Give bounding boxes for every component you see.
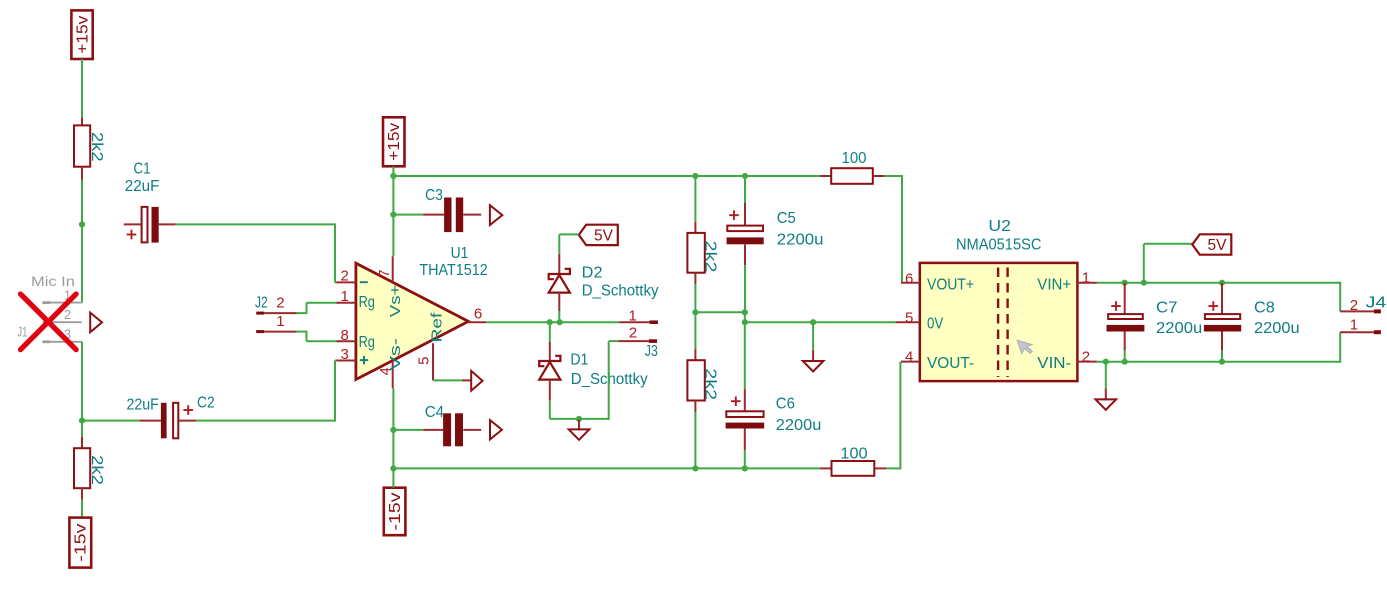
svg-text:+15v: +15v xyxy=(386,123,403,161)
global label 5V (at D2) xyxy=(579,225,618,245)
connector J4 pin 1 xyxy=(1340,317,1381,363)
mouse cursor xyxy=(1017,340,1032,354)
svg-text:5V: 5V xyxy=(594,227,614,244)
DC-DC converter U2 NMA0515SC body xyxy=(920,218,1078,381)
svg-text:Rg: Rg xyxy=(359,334,375,351)
wire to 5V label xyxy=(1144,244,1193,283)
resistor 2k2 (upper left) xyxy=(74,117,105,180)
resistor 2k2 (upper divider) xyxy=(687,176,718,312)
node junction top rail xyxy=(390,173,396,179)
node junction C3 tap xyxy=(390,212,396,218)
U2 pin 6 VOUT+ xyxy=(901,270,974,293)
wire C1 to U1 pin 2 xyxy=(176,223,337,282)
connector J1 Mic In (DNP, greyed) xyxy=(17,274,82,343)
node junction midpoint left xyxy=(692,309,698,315)
svg-text:0V: 0V xyxy=(927,316,944,333)
node junction 0V at C6 xyxy=(742,319,748,325)
U1 pin 4 Vs- xyxy=(378,338,404,389)
capacitor C7 2200u (polarised) xyxy=(1107,283,1203,362)
wire VIN+ net xyxy=(1097,282,1340,284)
svg-text:2k2: 2k2 xyxy=(701,368,718,400)
wire D1 anode to ground / J3 pin 2 drop xyxy=(550,341,609,420)
svg-text:Rg: Rg xyxy=(359,294,375,311)
U1 pin 3 non-inverting input xyxy=(337,346,369,364)
svg-text:J4: J4 xyxy=(1366,295,1387,312)
svg-text:2: 2 xyxy=(1082,349,1090,366)
connector J2 pin 2 xyxy=(255,294,297,314)
wire R to -15v flag xyxy=(81,500,83,518)
svg-text:2200u: 2200u xyxy=(1254,320,1300,337)
U2 pin 4 VOUT- xyxy=(901,349,974,372)
svg-text:1: 1 xyxy=(341,288,349,305)
svg-text:3: 3 xyxy=(341,346,349,363)
svg-text:2: 2 xyxy=(276,294,284,311)
wire 0V net to U2 pin 5 xyxy=(745,312,896,322)
svg-text:6: 6 xyxy=(474,306,482,323)
svg-text:100: 100 xyxy=(842,150,867,167)
svg-text:Vs+: Vs+ xyxy=(388,285,404,318)
svg-text:22uF: 22uF xyxy=(125,178,160,195)
power flag +15v (top left) xyxy=(71,10,92,59)
node junction D2 tap xyxy=(557,319,563,325)
svg-text:C3: C3 xyxy=(425,187,443,204)
global label 5V (at U2) xyxy=(1192,234,1231,254)
svg-text:J3: J3 xyxy=(645,343,658,360)
svg-text:5V: 5V xyxy=(1208,237,1228,254)
node junction VIN- at C7 xyxy=(1122,359,1128,365)
U1 pin 5 Ref xyxy=(416,311,445,380)
wire R to J1 pin1 / C1 tap xyxy=(81,180,83,303)
unconnected flag at C4 xyxy=(490,420,502,439)
U1 pin 2 inverting input xyxy=(337,268,368,285)
U2 pin 2 VIN- xyxy=(1037,349,1097,372)
svg-text:8: 8 xyxy=(341,327,349,344)
U1 pin 6 output xyxy=(468,306,486,323)
U2 pin 5 0V xyxy=(896,310,944,333)
resistor 100 (top) xyxy=(820,150,885,184)
svg-text:C4: C4 xyxy=(425,404,444,421)
svg-text:C6: C6 xyxy=(776,396,795,413)
svg-text:2: 2 xyxy=(64,307,71,322)
svg-text:2k2: 2k2 xyxy=(88,455,105,485)
svg-text:2: 2 xyxy=(1350,297,1358,314)
svg-text:VIN+: VIN+ xyxy=(1037,277,1071,294)
resistor 2k2 (lower divider) xyxy=(687,312,718,468)
capacitor C4 xyxy=(393,404,481,446)
connector J3 pin 2 xyxy=(609,325,658,360)
svg-text:D_Schottky: D_Schottky xyxy=(582,283,659,300)
capacitor C2 22uF (polarised) xyxy=(82,395,215,439)
diode D1 D_Schottky xyxy=(539,322,647,419)
capacitor C6 2200u (polarised) xyxy=(726,322,822,468)
wire 5V label to D2 xyxy=(559,234,579,254)
unconnected flag at C3 xyxy=(490,205,502,225)
wire +15v top rail xyxy=(393,175,819,177)
node junction midpoint right xyxy=(742,309,748,315)
ground symbol (at U2) xyxy=(1096,362,1117,410)
node junction VIN+ at C8 xyxy=(1219,280,1225,286)
svg-text:2200u: 2200u xyxy=(777,231,824,248)
svg-text:D1: D1 xyxy=(570,351,588,368)
svg-text:C8: C8 xyxy=(1254,299,1275,316)
node junction VIN+ at C7 xyxy=(1122,280,1128,286)
node junction 0V at ground xyxy=(810,319,816,325)
U2 pin 1 VIN+ xyxy=(1037,270,1097,294)
svg-text:+15v: +15v xyxy=(74,15,91,53)
svg-text:2k2: 2k2 xyxy=(701,241,718,273)
svg-text:1: 1 xyxy=(1082,270,1090,287)
svg-text:2: 2 xyxy=(341,268,349,285)
wire 100 to U2 pin 4 xyxy=(886,362,900,470)
svg-text:2k2: 2k2 xyxy=(88,132,105,162)
svg-text:7: 7 xyxy=(377,269,393,277)
node junction bottom rail at 2k2 xyxy=(692,465,698,471)
node junction top rail at 2k2 xyxy=(692,173,698,179)
node junction top rail at C5 xyxy=(742,173,748,179)
svg-text:NMA0515SC: NMA0515SC xyxy=(956,236,1042,253)
svg-text:1: 1 xyxy=(1350,317,1358,334)
U1 pin 7 Vs+ xyxy=(377,256,404,317)
wire U1 output to J3 pin 1 xyxy=(486,321,619,323)
node junction D1 tap xyxy=(547,319,553,325)
svg-text:6: 6 xyxy=(905,270,913,287)
svg-text:100: 100 xyxy=(840,446,867,463)
node junction C4 tap xyxy=(390,427,396,433)
svg-text:Vs-: Vs- xyxy=(388,338,404,371)
svg-text:J1: J1 xyxy=(17,324,27,339)
node junction at ground xyxy=(576,416,582,422)
node junction VIN- at ground xyxy=(1103,359,1109,365)
svg-text:-15v: -15v xyxy=(73,523,90,561)
unconnected flag at J1 pin 2 xyxy=(90,313,102,333)
wire Ref pin to flag xyxy=(433,379,462,381)
svg-text:2: 2 xyxy=(629,325,637,342)
power flag -15v (at U1) xyxy=(384,488,406,536)
node junction bottom rail at -15v xyxy=(390,465,396,471)
power flag +15v (at U1) xyxy=(383,117,405,166)
resistor 100 (bottom) xyxy=(820,446,886,476)
svg-text:2200u: 2200u xyxy=(1156,320,1202,337)
wire rail to -15v flag xyxy=(392,468,394,487)
svg-text:1: 1 xyxy=(629,307,637,324)
connector J3 pin 1 xyxy=(619,307,658,324)
DNP cross over J1 xyxy=(21,294,77,350)
capacitor C8 2200u (polarised) xyxy=(1204,283,1300,362)
wire C2 to U1 pin 3 xyxy=(196,361,337,422)
node junction VIN- at C8 xyxy=(1219,359,1225,365)
diode D2 D_Schottky xyxy=(549,254,659,322)
wire 100 to U2 pin 6 xyxy=(885,175,903,283)
node junction VIN+ at 5V xyxy=(1141,280,1147,286)
svg-text:1: 1 xyxy=(276,313,284,330)
wire J2 pin2 to U1 pin 1 xyxy=(297,303,337,314)
capacitor C3 xyxy=(393,187,481,232)
wire +15v flag down to U1 pin 7 xyxy=(392,166,394,256)
svg-text:VIN-: VIN- xyxy=(1037,355,1071,372)
node junction C2 tap xyxy=(79,418,85,424)
wire J2 pin1 to U1 pin 8 xyxy=(297,331,337,342)
svg-text:THAT1512: THAT1512 xyxy=(419,262,487,279)
node junction C1 tap xyxy=(79,221,85,227)
svg-text:VOUT+: VOUT+ xyxy=(927,277,974,294)
power flag -15v (bottom left) xyxy=(69,518,91,568)
svg-text:C1: C1 xyxy=(133,161,150,178)
svg-text:D2: D2 xyxy=(582,265,603,282)
svg-text:22uF: 22uF xyxy=(127,397,160,414)
svg-text:5: 5 xyxy=(905,310,913,327)
svg-text:4: 4 xyxy=(905,349,913,366)
capacitor C1 22uF (polarised) xyxy=(124,161,176,243)
wire +15v to R top xyxy=(81,59,83,117)
wire U1 pin 4 down to bottom rail xyxy=(392,388,394,468)
svg-text:5: 5 xyxy=(416,357,432,365)
wire J1 pin3 down to C2 tap xyxy=(81,342,83,437)
svg-text:U2: U2 xyxy=(988,218,1011,235)
unconnected flag at Ref xyxy=(462,371,483,391)
wire divider midpoint xyxy=(695,311,744,313)
wire -15v bottom rail xyxy=(393,467,819,469)
connector J4 pin 2 xyxy=(1340,282,1386,314)
U1 pin 8 Rg xyxy=(337,327,375,351)
svg-text:U1: U1 xyxy=(451,245,469,262)
resistor 2k2 (lower left) xyxy=(74,437,105,500)
U1 pin 1 Rg xyxy=(337,288,375,311)
svg-text:2200u: 2200u xyxy=(776,417,822,434)
ground symbol (0V) xyxy=(803,322,824,371)
svg-text:C7: C7 xyxy=(1156,299,1178,316)
capacitor C5 2200u (polarised) xyxy=(727,176,824,312)
svg-text:VOUT-: VOUT- xyxy=(927,355,974,372)
svg-text:J2: J2 xyxy=(255,294,268,311)
wire VIN- net xyxy=(1097,361,1340,363)
connector J2 pin 1 xyxy=(256,313,296,333)
svg-text:C2: C2 xyxy=(197,395,215,412)
op-amp U1 THAT1512 body xyxy=(356,245,488,380)
ground symbol (at D1) xyxy=(569,420,590,440)
svg-text:Ref: Ref xyxy=(430,311,446,342)
svg-text:C5: C5 xyxy=(777,210,796,227)
svg-text:-15v: -15v xyxy=(387,492,404,530)
node junction bottom rail at C6 xyxy=(742,465,748,471)
